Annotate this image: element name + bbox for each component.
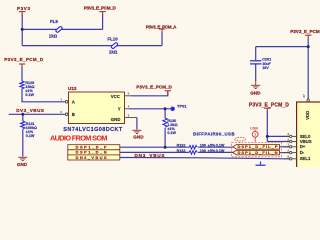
svg-text:VDD: VDD bbox=[305, 111, 310, 120]
svg-text:P3V3_E_PCM: P3V3_E_PCM bbox=[290, 29, 320, 34]
svg-text:GND: GND bbox=[250, 91, 261, 96]
svg-text:A: A bbox=[72, 99, 75, 104]
svg-text:U13: U13 bbox=[68, 86, 77, 91]
svg-text:P3V3_E_PCM_A: P3V3_E_PCM_A bbox=[146, 24, 177, 29]
svg-text:0.1W: 0.1W bbox=[167, 131, 176, 135]
svg-text:P3V3_E_PCM_D: P3V3_E_PCM_D bbox=[84, 6, 117, 11]
svg-text:P3V3: P3V3 bbox=[17, 6, 30, 11]
svg-text:27: 27 bbox=[302, 94, 306, 98]
svg-text:AUDIO FROM SOM: AUDIO FROM SOM bbox=[50, 133, 108, 142]
svg-text:P3V3_E_PCM_D: P3V3_E_PCM_D bbox=[249, 103, 289, 109]
svg-text:USB: USB bbox=[250, 127, 258, 131]
svg-text:DN3_VBUS: DN3_VBUS bbox=[76, 155, 107, 160]
svg-text:1kΩ: 1kΩ bbox=[109, 50, 118, 55]
svg-text:DSP1_D_FIL_N: DSP1_D_FIL_N bbox=[238, 150, 278, 155]
svg-text:0.1W: 0.1W bbox=[216, 144, 225, 148]
svg-text:GND: GND bbox=[111, 117, 121, 122]
svg-text:FL9: FL9 bbox=[50, 19, 58, 24]
svg-text:TP91: TP91 bbox=[177, 104, 187, 109]
svg-text:D+: D+ bbox=[300, 144, 306, 149]
svg-text:VBUS: VBUS bbox=[300, 139, 312, 144]
svg-text:100: 100 bbox=[200, 144, 206, 148]
svg-text:B: B bbox=[72, 112, 75, 117]
svg-text:DV3_VBUS: DV3_VBUS bbox=[16, 108, 44, 113]
svg-text:SN74LVC1G08DCKT: SN74LVC1G08DCKT bbox=[63, 127, 123, 133]
svg-text:100: 100 bbox=[200, 149, 206, 153]
svg-text:D-: D- bbox=[300, 150, 305, 155]
svg-text:DIFFPAIR90_USB: DIFFPAIR90_USB bbox=[193, 132, 234, 137]
svg-text:GND: GND bbox=[17, 162, 28, 167]
svg-text:0.1W: 0.1W bbox=[216, 149, 225, 153]
svg-text:±5%: ±5% bbox=[208, 144, 216, 148]
svg-text:R133: R133 bbox=[177, 149, 186, 153]
svg-text:P3V3_E_PCM_D: P3V3_E_PCM_D bbox=[4, 57, 44, 62]
svg-text:1kΩ: 1kΩ bbox=[49, 34, 58, 39]
svg-text:R132: R132 bbox=[177, 144, 186, 148]
svg-text:DN3_VBUS: DN3_VBUS bbox=[135, 153, 165, 158]
svg-text:DSP1_D_FIL_P: DSP1_D_FIL_P bbox=[238, 144, 278, 149]
svg-text:Y: Y bbox=[118, 106, 121, 111]
svg-text:SEL1: SEL1 bbox=[300, 156, 311, 161]
svg-text:GND: GND bbox=[133, 134, 144, 139]
svg-text:0.1W: 0.1W bbox=[26, 134, 35, 138]
svg-text:VCC: VCC bbox=[111, 94, 120, 99]
svg-text:1: 1 bbox=[254, 133, 256, 137]
svg-text:P3V3_E_PCM_D: P3V3_E_PCM_D bbox=[136, 85, 172, 90]
svg-text:0.1W: 0.1W bbox=[25, 93, 34, 97]
svg-text:16V: 16V bbox=[262, 66, 269, 70]
svg-text:FL10: FL10 bbox=[107, 36, 118, 41]
svg-text:±5%: ±5% bbox=[208, 149, 216, 153]
